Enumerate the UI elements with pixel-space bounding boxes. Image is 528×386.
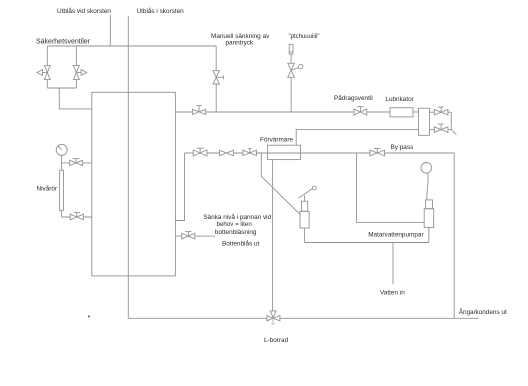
wire safety valves bottom header [47, 87, 76, 89]
valve engine top (stem up) [440, 107, 442, 112]
wire pump bottom header [305, 242, 429, 244]
wire lubricator to engine [413, 111, 419, 113]
valve whistle (vertical, lever with ball) [288, 63, 295, 77]
svg-text:behov = liten: behov = liten [217, 221, 253, 228]
svg-text:"ptchuuuiiii": "ptchuuuiiii" [289, 34, 320, 40]
svg-text:Matarvattenpumpar: Matarvattenpumpar [368, 231, 424, 238]
wire drop from Utblås vid skorsten [109, 15, 111, 47]
wire drain drop to boiler [59, 88, 92, 109]
valve feed B (plain) [220, 150, 234, 155]
valve feed C (small stem) [249, 149, 251, 153]
svg-text:Säkerhetsventiler: Säkerhetsventiler [36, 39, 91, 46]
wire below left safety valve [46, 80, 48, 88]
wire right pump discharge [428, 227, 430, 242]
svg-text:Bottenblås ut: Bottenblås ut [222, 239, 260, 247]
wire feedwater stub into boiler [175, 153, 184, 221]
pump right body [424, 209, 434, 228]
arrow left safety valve outlet [43, 72, 48, 74]
svg-text:By pass: By pass [391, 144, 414, 151]
arrow right safety valve outlet [76, 72, 81, 74]
svg-text:Förvärmare: Förvärmare [260, 137, 293, 144]
pressure gauge [56, 144, 67, 155]
valve level top (stem up) [75, 159, 77, 163]
boiler shell [92, 92, 176, 276]
wire valve to steam line [215, 84, 217, 112]
valve engine bottom (stem up) [440, 124, 442, 129]
wire Manuell sänkning drop [215, 46, 217, 71]
wire level gauge bottom line [62, 216, 92, 218]
svg-text:Ånga/kondens ut: Ånga/kondens ut [459, 307, 507, 316]
lever left pump [298, 188, 312, 198]
svg-text:Nivårör: Nivårör [37, 185, 58, 193]
svg-text:Utblås vid skorsten: Utblås vid skorsten [57, 7, 111, 15]
wire left pump discharge [304, 228, 306, 243]
svg-text:bottenbläsning: bottenbläsning [215, 229, 257, 236]
wire right side down line [453, 153, 455, 318]
valve safety right (vertical) [74, 65, 80, 79]
wire bottom blow line [175, 235, 215, 237]
wire whistle to valve [290, 54, 292, 63]
wire exhaust diagonal [451, 130, 456, 135]
wire engine bottom outlet [430, 129, 435, 131]
wire gauge to gauge glass [61, 155, 63, 170]
wire left safety valve riser [46, 46, 48, 65]
wire glass bottom [61, 210, 63, 217]
whistle body [289, 44, 293, 54]
wire left pump piston [304, 195, 306, 201]
engine cylinder [419, 108, 430, 135]
wire chimney line Utblås i skorsten (top to bottom drain line) [127, 16, 129, 318]
preheater body [268, 145, 301, 159]
wire below right safety valve [75, 80, 77, 88]
wire inner loop to right pump [357, 153, 425, 223]
svg-text:Sänka nivå i pannan vid: Sänka nivå i pannan vid [203, 213, 271, 221]
wire engine valve loop vertical [450, 112, 452, 129]
svg-text:Vatten in: Vatten in [380, 290, 405, 297]
svg-text:Utblås i skorsten: Utblås i skorsten [137, 7, 185, 15]
valve L-borrad three-way [267, 311, 280, 321]
lubricator body [390, 108, 413, 117]
svg-text:Lubrikator: Lubrikator [385, 96, 414, 103]
wire feedwater line [185, 152, 455, 154]
ball left pump lever [313, 186, 317, 190]
valve level bottom (stem up) [76, 213, 78, 217]
wire safety-valve manifold [48, 45, 217, 47]
valve Pådragsventil (stem up) [359, 107, 361, 112]
valve safety left (vertical) [44, 65, 50, 79]
svg-text:Pådragsventil: Pådragsventil [334, 94, 373, 102]
wire level gauge top line [62, 162, 92, 164]
dot stray mark [88, 316, 90, 318]
valve feed A (stem up) [199, 148, 201, 153]
wire main steam line [175, 111, 390, 113]
wire whistle drop to steam line [290, 77, 292, 112]
valve manual pressure lowering (vertical, stem right) [213, 71, 219, 84]
wire engine top outlet [430, 111, 435, 113]
rod right pump [427, 173, 428, 200]
wire pump suction drop and diagonal [261, 153, 300, 214]
svg-text:L-borrad: L-borrad [264, 337, 289, 344]
wire engine left to preheater [296, 130, 418, 146]
valve bottom blow (stem up) [187, 232, 189, 236]
wire right safety valve riser [75, 46, 77, 65]
pump left body [300, 211, 309, 228]
wire bottom condensate line [128, 317, 478, 319]
valve steam stop at boiler (stem up) [198, 106, 200, 112]
svg-text:panntryck: panntryck [226, 40, 255, 47]
wire water inlet drop [392, 243, 394, 285]
valve by-pass (stem up) [376, 149, 378, 153]
wire preheater bottom drop to L-borrad [272, 160, 274, 316]
gauge glass Nivårör [60, 170, 64, 210]
flywheel right pump [421, 163, 432, 174]
